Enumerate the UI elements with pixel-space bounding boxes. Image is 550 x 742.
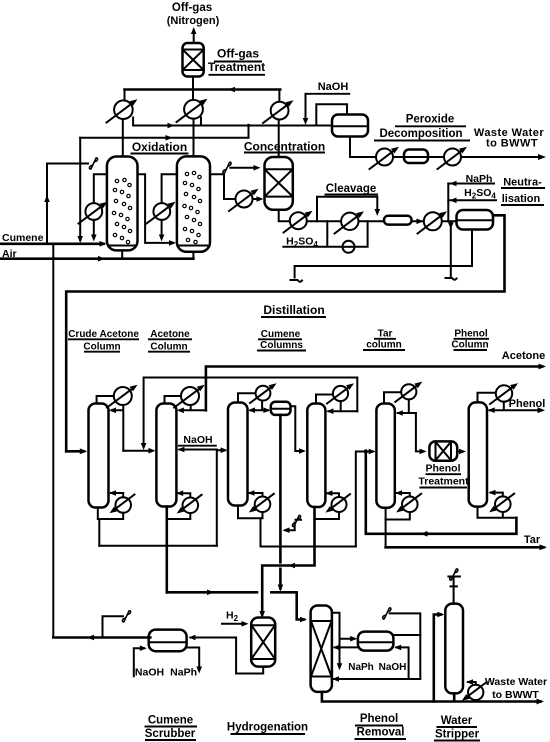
wire bottoms collector E crude acetone <box>99 545 217 547</box>
wire stripper vent with flag <box>448 569 460 604</box>
wire top condenser manifold <box>125 88 281 91</box>
heat exchanger cleavage preheater E5 <box>284 211 313 233</box>
label NaOH top <box>306 81 351 94</box>
svg-text:Cumene: Cumene <box>148 715 193 727</box>
reactor R2 oxidation <box>177 156 210 251</box>
label Cumene Scrubber <box>145 715 198 741</box>
condenser C6 assembly phenol column <box>478 383 546 413</box>
pump acid circulation <box>343 241 355 253</box>
wire cumene col2 bottoms to hydrogenation <box>259 507 314 618</box>
label Waste Water to BWWT top <box>474 127 544 150</box>
svg-text:column: column <box>366 340 402 351</box>
wire scrubbed cumene return <box>53 635 150 641</box>
label Tar column <box>363 329 405 351</box>
flag stream into concentration <box>223 162 261 174</box>
wire phenol removal bottoms to stripper <box>322 612 444 702</box>
label Crude Acetone Column <box>68 329 139 352</box>
drain symbol sewer 1 <box>291 280 303 282</box>
wire off-gas vent with arrow up <box>191 27 197 43</box>
wire concentration bottom outlet <box>279 210 290 222</box>
label Cleavage <box>325 183 379 195</box>
reboiler R4 assembly <box>315 490 351 519</box>
svg-text:Cleavage: Cleavage <box>326 183 377 195</box>
vessel phenol treatment <box>429 441 457 460</box>
vessel NaPh NaOH drum <box>358 632 394 651</box>
wire off-gas vessel stub down <box>192 77 194 90</box>
reboiler R2 assembly <box>167 490 202 592</box>
wire recycle L1 from cumene column 2 to acetone column <box>141 378 357 451</box>
wire H2SO4 feed neutralisation <box>448 184 496 222</box>
heat exchanger condenser E3 <box>263 90 294 158</box>
condenser C3 assembly with reflux drum <box>238 383 277 413</box>
label Off-gas (Nitrogen) <box>167 2 220 27</box>
wire cumene recycle vertical <box>52 244 54 638</box>
label Waste Water to BWWT bottom <box>485 676 547 701</box>
svg-text:NaOH: NaOH <box>379 662 407 673</box>
vessel neutralisation drum <box>457 210 494 230</box>
condenser C5 assembly tar column <box>384 382 427 455</box>
vessel peroxide decomposition drum <box>332 115 368 137</box>
label Acetone Column <box>148 329 192 352</box>
svg-text:Scrubber: Scrubber <box>145 728 196 740</box>
drain symbol sewer 2 <box>446 278 457 280</box>
label Concentration <box>244 140 325 154</box>
heat exchanger neutraliser cooler E7 <box>418 211 448 233</box>
wire phenol treatment outlet to phenol column <box>457 449 466 455</box>
label Peroxide Decomposition <box>374 114 470 141</box>
heat exchanger waste water cooler 1 <box>370 147 400 169</box>
condenser C2 assembly <box>165 385 206 413</box>
column C1 crude acetone <box>89 404 109 508</box>
wire cumene feed line <box>0 241 107 247</box>
wire neutraliser bottom drain <box>295 230 472 278</box>
svg-text:NaOH: NaOH <box>183 434 212 446</box>
svg-text:Peroxide: Peroxide <box>406 114 455 126</box>
svg-text:Acetone: Acetone <box>502 350 545 362</box>
svg-text:Concentration: Concentration <box>244 140 325 154</box>
label Phenol Column <box>451 329 489 351</box>
wire stripper bottoms and waste water <box>434 693 544 704</box>
svg-text:Decomposition: Decomposition <box>379 128 462 140</box>
heat exchanger condenser E2 <box>177 90 208 157</box>
svg-text:Phenol: Phenol <box>360 713 398 725</box>
reactor R1 oxidation <box>107 157 138 251</box>
bubbles reactor R1 <box>112 178 131 243</box>
label Neutralisation <box>501 177 545 206</box>
wire hydrogenation product to scrubber <box>189 635 264 674</box>
label Cumene Columns <box>257 329 306 351</box>
svg-text:NaOH: NaOH <box>318 81 349 93</box>
wire tar product line <box>386 544 547 550</box>
wire reactor R1 to R2 transfer <box>138 174 177 246</box>
wire to neutralisation <box>412 219 457 225</box>
column water stripper <box>445 604 463 694</box>
wire drain below neutralisation junction <box>448 221 454 277</box>
heat exchanger cleavage cooler E6 <box>335 211 365 233</box>
heat exchanger cooler R2 loop <box>147 174 177 241</box>
wire condensate header C <box>77 124 250 243</box>
heat exchanger waste water cooler 2 <box>438 147 468 169</box>
label Off-gas Treatment <box>208 47 265 75</box>
wire cumene riser to flag <box>44 164 88 244</box>
svg-text:Neutra-: Neutra- <box>503 177 542 189</box>
column C2 acetone <box>156 404 176 507</box>
svg-text:Cumene: Cumene <box>2 232 44 244</box>
wire tar column feed <box>356 449 376 547</box>
heat exchanger feed cooler E4 <box>229 189 264 211</box>
label Phenol Removal <box>355 713 407 739</box>
wire NaPh drain scrubber <box>186 648 202 674</box>
vessel cumene scrubber <box>149 630 187 652</box>
svg-text:Oxidation: Oxidation <box>132 140 187 154</box>
vessel off-gas treatment <box>183 43 204 77</box>
column C5 tar <box>376 404 394 508</box>
wire acetone product line <box>206 364 546 411</box>
label Hydrogenation <box>227 722 308 735</box>
svg-text:Waste Water: Waste Water <box>485 676 547 688</box>
column C6 phenol <box>469 402 487 506</box>
wire phenol column bottoms recycle L2 to tar column <box>364 449 517 536</box>
vessel cleavage reactor capsule <box>384 216 412 225</box>
reboiler R5 assembly <box>386 490 422 547</box>
vessel waste water treater capsule <box>404 150 428 164</box>
label Oxidation <box>131 140 189 154</box>
svg-text:Off-gas: Off-gas <box>172 2 212 14</box>
label Phenol Treatment <box>418 463 469 488</box>
column C3 cumene 1 <box>228 403 248 506</box>
svg-text:Distillation: Distillation <box>263 303 324 317</box>
flag stream break phenol removal <box>383 607 391 619</box>
flag stream join cumene product <box>283 515 302 533</box>
wire H2SO4 feed and pump loop <box>283 221 367 247</box>
svg-text:Hydrogenation: Hydrogenation <box>227 722 308 734</box>
svg-text:(Nitrogen): (Nitrogen) <box>167 15 220 27</box>
wire scrubber branch to flag <box>103 616 124 637</box>
wire condensate header A <box>133 118 332 129</box>
wire drum bottoms cumene product down <box>278 415 284 592</box>
wire bottoms collector cumene1 to tar feed <box>261 546 356 548</box>
svg-text:NaOH: NaOH <box>135 667 164 679</box>
label Distillation <box>261 303 326 317</box>
wire air feed line <box>0 250 193 261</box>
svg-text:to BWWT: to BWWT <box>486 138 538 150</box>
vessel concentration column <box>265 157 293 210</box>
wire flag line and drum overflow loop <box>332 613 420 681</box>
reboiler R3 assembly <box>238 490 274 546</box>
svg-text:Removal: Removal <box>357 727 405 739</box>
svg-text:Off-gas: Off-gas <box>217 47 259 61</box>
wire NaPh feed <box>448 181 494 187</box>
svg-text:Column: Column <box>83 341 120 352</box>
column phenol removal <box>311 606 332 692</box>
svg-text:Treatment: Treatment <box>208 60 265 74</box>
svg-text:Columns: Columns <box>260 340 303 351</box>
svg-text:Stripper: Stripper <box>435 729 480 741</box>
wire cleavage main line <box>307 220 384 222</box>
svg-text:Tar: Tar <box>524 534 541 546</box>
flag stream break scrubber <box>122 610 130 622</box>
wire NaOH feed scrubber <box>134 645 147 676</box>
svg-text:Phenol: Phenol <box>509 398 546 410</box>
arrow left on manifold <box>228 87 235 93</box>
wire drum to cumene column 2 feed <box>291 406 307 454</box>
label Water Stripper <box>434 715 480 741</box>
svg-text:Treatment: Treatment <box>418 476 469 488</box>
wire NaOH dosing <box>303 94 347 126</box>
wire reactor R2 outlet to concentration <box>210 174 236 199</box>
svg-text:lisation: lisation <box>502 193 541 205</box>
wire neutralised product to distillation <box>66 215 504 451</box>
wire phenol removal overhead <box>332 613 357 671</box>
wire acetone column bottoms to phenol removal <box>167 590 307 623</box>
column C4 cumene 2 <box>307 404 325 508</box>
condenser C1 assembly <box>97 385 156 454</box>
svg-text:to BWWT: to BWWT <box>492 689 539 701</box>
wire H2 feed <box>222 621 249 627</box>
wire cleavage recycle loop top <box>317 197 380 222</box>
svg-text:Column: Column <box>150 341 187 352</box>
svg-text:Water: Water <box>441 715 473 727</box>
reboiler R1 assembly <box>98 490 135 546</box>
wire drum return to column <box>333 645 358 651</box>
heat exchanger condenser E1 <box>107 90 138 157</box>
label NaOH distillation <box>178 434 217 446</box>
vessel reflux drum cumene <box>271 402 291 415</box>
svg-text:NaPh: NaPh <box>170 667 197 679</box>
reboiler R6 assembly <box>478 490 517 518</box>
flag stream break left <box>89 158 97 170</box>
svg-text:Phenol: Phenol <box>425 463 460 475</box>
condenser C4 assembly <box>316 383 357 414</box>
wire crude bottoms riser with NaOH into columns 2 and 3 <box>177 447 227 546</box>
svg-text:Column: Column <box>451 340 488 351</box>
heat exchanger cooler R1 loop <box>79 174 108 241</box>
heat exchanger stripper reboiler <box>462 679 487 701</box>
svg-text:NaPh: NaPh <box>348 662 374 673</box>
bubbles reactor R2 <box>183 171 202 243</box>
wire waste water train <box>350 137 546 161</box>
reactor hydrogenation <box>251 618 275 667</box>
